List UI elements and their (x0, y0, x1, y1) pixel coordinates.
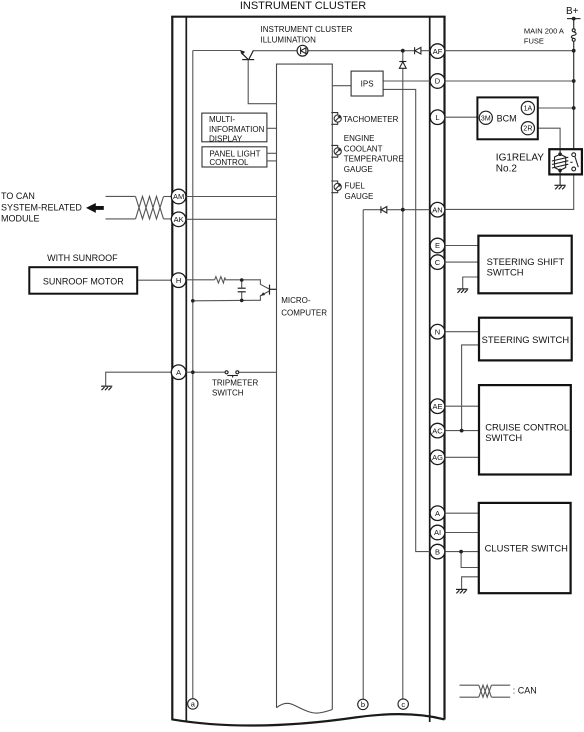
relay IG1RELAY No.2 (549, 149, 582, 174)
svg-text:A: A (435, 509, 440, 518)
wire AE to cruise control switch (445, 405, 479, 407)
svg-text:WITH SUNROOF: WITH SUNROOF (47, 253, 118, 263)
wire A to tripmeter switch (186, 371, 225, 373)
svg-text:FUSE: FUSE (524, 36, 544, 45)
pin AN (430, 202, 445, 217)
svg-text:AF: AF (433, 47, 443, 56)
wire D to B+ rail (445, 80, 574, 82)
svg-text:ENGINE: ENGINE (344, 134, 375, 143)
pin C (430, 255, 445, 270)
wire IPS to connector B (383, 89, 430, 551)
wire sunroof motor to H (137, 279, 171, 281)
svg-text:3M: 3M (481, 115, 491, 122)
wire microcomputer to IPS (332, 85, 351, 87)
lamp instrument cluster illumination (297, 45, 308, 56)
svg-text:FUEL: FUEL (345, 181, 366, 190)
pin AM (171, 189, 186, 204)
svg-text:DISPLAY: DISPLAY (209, 135, 243, 144)
wire BCM 2R to relay coil (535, 128, 561, 149)
pin AG (430, 450, 445, 465)
pin H (171, 273, 186, 288)
pin N (430, 324, 445, 339)
relay coil (552, 149, 568, 185)
svg-text:c: c (401, 700, 405, 709)
svg-text:MULTI-: MULTI- (209, 115, 235, 124)
capacitor C1 leads (241, 280, 243, 288)
wire twisted pair stub bottom right (164, 218, 172, 220)
relay switch (570, 153, 578, 171)
CAN legend twist (479, 685, 492, 697)
resistor R1 (215, 277, 226, 283)
pin B (430, 544, 445, 559)
svg-text:TRIPMETER: TRIPMETER (212, 378, 258, 387)
fuse MAIN 200 A (571, 29, 576, 42)
ground at cluster switch (456, 589, 467, 593)
wire rail to node a (192, 51, 194, 699)
transistor Q1 (241, 50, 254, 59)
wire BCM 1A to B+ rail (535, 107, 574, 109)
wire AF to B+ rail (445, 50, 574, 52)
svg-text:E: E (435, 241, 440, 250)
svg-text:AC: AC (432, 426, 443, 435)
pin A left (171, 365, 186, 380)
steering shift switch box (478, 236, 571, 294)
svg-text:SWITCH: SWITCH (485, 432, 522, 443)
svg-text:COOLANT: COOLANT (344, 144, 383, 153)
junction dot AN rail (401, 208, 405, 212)
wire H to resistor (186, 279, 215, 281)
wire AG to cruise control switch (445, 456, 479, 458)
pin E (430, 238, 445, 253)
ground below relay (555, 185, 566, 189)
svg-text:INSTRUMENT CLUSTER: INSTRUMENT CLUSTER (261, 25, 353, 34)
svg-text:AN: AN (432, 205, 442, 214)
wire N to steering switch (445, 331, 479, 333)
svg-text:AG: AG (432, 453, 443, 462)
pin 3M (479, 111, 492, 124)
svg-text:IPS: IPS (361, 80, 374, 89)
node b (358, 699, 368, 709)
pin D (430, 74, 445, 89)
svg-text:MICRO-: MICRO- (281, 296, 311, 305)
transistor Q1 collector wire (248, 60, 276, 104)
svg-text:1A: 1A (524, 106, 533, 113)
svg-text:BCM: BCM (497, 113, 517, 123)
pin L (430, 110, 445, 125)
wire tripmeter switch to microcomputer (239, 371, 277, 373)
BCM box (477, 97, 537, 139)
wire illumination right segment (253, 50, 430, 52)
transistor Q2 (270, 285, 277, 295)
pin 2R (521, 122, 534, 135)
svg-text:INSTRUMENT CLUSTER: INSTRUMENT CLUSTER (240, 0, 366, 12)
junction dot tripmeter (191, 370, 195, 374)
svg-text:INFORMATION: INFORMATION (209, 125, 265, 134)
svg-text:STEERING SWITCH: STEERING SWITCH (482, 334, 570, 345)
svg-text:CRUISE CONTROL: CRUISE CONTROL (485, 422, 569, 433)
svg-text:AM: AM (173, 192, 184, 201)
pin AE (430, 399, 445, 414)
svg-text:CLUSTER SWITCH: CLUSTER SWITCH (485, 543, 568, 554)
svg-text:STEERING SHIFT: STEERING SHIFT (487, 256, 565, 267)
svg-text:IG1RELAY: IG1RELAY (496, 153, 544, 164)
wire rail diode to node c (402, 51, 404, 699)
ground at steering shift switch (457, 289, 468, 293)
junction dot AC (460, 429, 464, 433)
wire E to steering shift switch (445, 245, 479, 247)
svg-text:PANEL LIGHT: PANEL LIGHT (209, 149, 260, 158)
wire B branch to cluster switch lower pin (461, 552, 479, 568)
svg-text:SWITCH: SWITCH (487, 266, 524, 277)
svg-text:B+: B+ (566, 6, 579, 17)
IPS box (351, 71, 383, 96)
svg-text:B: B (435, 547, 440, 556)
junction dot B wire (459, 550, 463, 554)
twisted pair crossover (136, 196, 164, 219)
svg-text:GAUGE: GAUGE (344, 165, 373, 174)
svg-text:TO CAN: TO CAN (1, 191, 35, 201)
gauge fuel (331, 181, 341, 193)
wire AM to microcomputer (186, 196, 277, 198)
wire CAN module bottom (106, 218, 136, 220)
svg-text:AI: AI (434, 528, 441, 537)
cluster switch box (479, 503, 571, 593)
pin AC (430, 423, 445, 438)
arrow to CAN module (86, 203, 104, 213)
gauge tachometer (331, 113, 341, 125)
svg-text:CONTROL: CONTROL (209, 158, 249, 167)
steering switch box (479, 318, 572, 361)
svg-text:AE: AE (432, 402, 442, 411)
svg-text:H: H (176, 276, 181, 285)
wire A to ground (106, 372, 172, 386)
wire AN left with branch (363, 209, 430, 211)
svg-text:: CAN: : CAN (513, 685, 537, 695)
svg-text:MAIN 200 A: MAIN 200 A (524, 27, 564, 36)
svg-text:N: N (435, 327, 440, 336)
svg-text:L: L (435, 113, 439, 122)
svg-text:MODULE: MODULE (1, 214, 40, 224)
capacitor C1 (238, 288, 246, 292)
wire C to steering shift switch (445, 261, 479, 263)
wire rail to node b (362, 210, 364, 700)
wire twisted pair stub top right (164, 196, 172, 198)
wire B to cluster switch (445, 551, 479, 553)
wire L to BCM 3M (445, 116, 480, 118)
panel light control box (202, 147, 267, 167)
svg-text:D: D (435, 77, 441, 86)
node a (188, 699, 198, 709)
wire AK to microcomputer (186, 218, 277, 220)
wire relay to AN (445, 171, 574, 210)
pin 1A (521, 101, 534, 114)
wire sunroof return to Q2 emitter (193, 291, 270, 301)
wire cluster switch ground lead (462, 577, 479, 589)
gauge engine coolant temperature (331, 145, 341, 157)
svg-text:2R: 2R (523, 126, 532, 133)
wire A to cluster switch (445, 512, 479, 514)
svg-text:A: A (176, 368, 181, 377)
instrument cluster outer box (171, 16, 445, 726)
svg-text:TEMPERATURE: TEMPERATURE (344, 154, 404, 163)
diode D1 (415, 47, 421, 54)
svg-text:GAUGE: GAUGE (345, 192, 374, 201)
svg-text:b: b (361, 700, 365, 709)
wire steering shift switch ground lead (463, 277, 479, 289)
pin AF (430, 44, 445, 59)
wire CAN module top (106, 195, 136, 197)
multi-information display box (202, 113, 267, 142)
pin AK (171, 212, 186, 227)
connector circles left strip (171, 189, 186, 379)
ground at connector A wire (101, 386, 112, 390)
svg-text:ILLUMINATION: ILLUMINATION (261, 35, 317, 44)
diode D2 vertical (399, 62, 406, 69)
junction dots sunroof circuit (240, 278, 244, 282)
svg-text:SUNROOF MOTOR: SUNROOF MOTOR (43, 277, 124, 287)
CAN legend lines (460, 684, 479, 686)
svg-text:C: C (435, 258, 441, 267)
pin AI (430, 525, 445, 540)
wire IPS to D (383, 80, 430, 82)
wire resistor to transistor Q2 (225, 280, 269, 289)
cruise control switch box (479, 385, 571, 474)
node c (398, 699, 408, 709)
svg-text:SYSTEM-RELATED: SYSTEM-RELATED (1, 202, 82, 212)
connector circles right strip (430, 44, 445, 559)
svg-text:SWITCH: SWITCH (212, 389, 244, 398)
svg-text:AK: AK (174, 215, 184, 224)
junction dots on B+ rail (572, 49, 576, 53)
svg-text:TACHOMETER: TACHOMETER (343, 115, 399, 124)
B+ supply rail (567, 19, 581, 155)
micro-computer U1 box (277, 64, 333, 713)
node junction dot illumination (401, 49, 405, 53)
wire AI to cluster switch (445, 532, 479, 534)
diode D3 on AN wire (381, 206, 387, 213)
pin A right (430, 506, 445, 521)
wire steering switch to AC junction (462, 345, 479, 431)
wire AC to cruise control switch (445, 430, 479, 432)
wire illumination left segment (193, 50, 241, 52)
tripmeter switch (225, 371, 239, 378)
svg-text:No.2: No.2 (496, 163, 518, 174)
svg-text:COMPUTER: COMPUTER (281, 309, 327, 318)
